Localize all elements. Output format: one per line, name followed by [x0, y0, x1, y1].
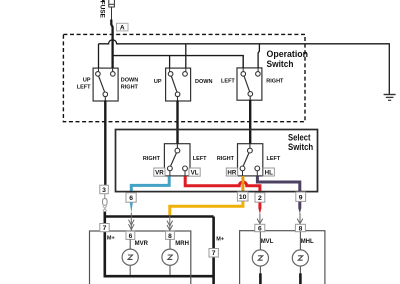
svg-text:LEFT: LEFT	[77, 85, 91, 91]
svg-text:MVR: MVR	[135, 241, 149, 247]
svg-text:UP: UP	[154, 79, 162, 85]
svg-text:RIGHT: RIGHT	[217, 156, 235, 162]
svg-text:VR: VR	[155, 170, 164, 177]
svg-text:Switch: Switch	[267, 59, 294, 69]
svg-text:LEFT: LEFT	[267, 156, 281, 162]
svg-text:DOWN: DOWN	[195, 79, 212, 85]
svg-text:LEFT: LEFT	[193, 156, 207, 162]
svg-text:RIGHT: RIGHT	[143, 156, 161, 162]
svg-text:FUSE: FUSE	[98, 1, 105, 19]
svg-text:MVL: MVL	[261, 239, 274, 245]
svg-text:Switch: Switch	[288, 142, 313, 152]
svg-text:HL: HL	[265, 170, 273, 177]
svg-text:DOWN: DOWN	[121, 78, 138, 84]
svg-text:MRH: MRH	[175, 241, 189, 247]
svg-text:6: 6	[129, 195, 133, 202]
svg-text:6: 6	[129, 233, 133, 240]
svg-text:8: 8	[168, 233, 172, 240]
svg-text:3: 3	[102, 187, 106, 194]
svg-text:M+: M+	[216, 237, 224, 243]
svg-text:HR: HR	[227, 170, 236, 177]
svg-text:Select: Select	[288, 132, 311, 142]
svg-text:MHL: MHL	[301, 239, 314, 245]
svg-text:7: 7	[212, 250, 216, 257]
svg-text:RIGHT: RIGHT	[266, 79, 284, 85]
svg-text:8: 8	[299, 225, 303, 232]
svg-text:Operation: Operation	[267, 49, 309, 59]
svg-text:9: 9	[299, 194, 303, 201]
svg-text:2: 2	[258, 195, 262, 202]
svg-text:RIGHT: RIGHT	[121, 85, 139, 91]
svg-text:VL: VL	[191, 170, 199, 177]
svg-text:UP: UP	[83, 78, 91, 84]
svg-text:LEFT: LEFT	[221, 79, 235, 85]
svg-text:M+: M+	[107, 236, 115, 242]
svg-text:A: A	[120, 24, 125, 31]
svg-text:10: 10	[239, 194, 247, 201]
svg-text:6: 6	[258, 225, 262, 232]
svg-text:7: 7	[103, 225, 107, 232]
